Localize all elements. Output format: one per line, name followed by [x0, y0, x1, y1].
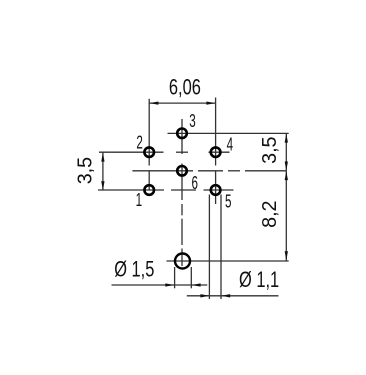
svg-text:5: 5: [225, 192, 231, 212]
svg-text:1: 1: [136, 190, 142, 210]
svg-text:6: 6: [191, 173, 197, 193]
svg-text:3: 3: [189, 112, 195, 132]
svg-text:2: 2: [136, 133, 142, 153]
svg-text:8,2: 8,2: [259, 201, 281, 228]
svg-text:3,5: 3,5: [74, 157, 96, 184]
svg-text:6,06: 6,06: [169, 75, 201, 100]
svg-text:Ø 1,1: Ø 1,1: [239, 268, 279, 293]
svg-text:Ø 1,5: Ø 1,5: [114, 257, 154, 282]
svg-text:4: 4: [227, 135, 234, 155]
svg-text:3,5: 3,5: [259, 137, 281, 164]
